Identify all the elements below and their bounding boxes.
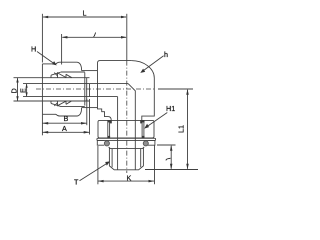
svg-text:H: H [31, 45, 36, 54]
svg-text:H1: H1 [166, 104, 175, 113]
svg-text:L: L [83, 9, 87, 18]
svg-text:L1: L1 [177, 125, 186, 133]
svg-text:D: D [9, 88, 18, 93]
svg-text:T: T [74, 178, 79, 187]
svg-text:E: E [18, 88, 27, 93]
svg-text:A: A [62, 124, 67, 133]
svg-text:h: h [164, 50, 168, 59]
svg-text:B: B [64, 114, 69, 123]
svg-text:K: K [127, 174, 132, 183]
